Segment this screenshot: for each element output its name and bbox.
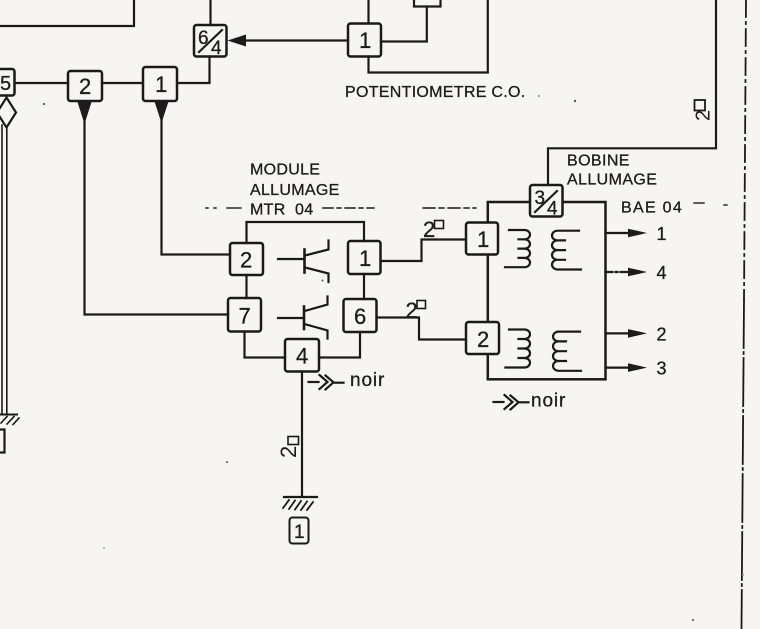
- wire into connector 6/4 from top: [209, 0, 211, 25]
- label MODULE ALLUMAGE MTR 04: [250, 162, 340, 219]
- svg-text:4: 4: [211, 38, 222, 59]
- svg-text:noir: noir: [531, 391, 566, 412]
- wire label 2-square (upper): [423, 217, 444, 242]
- noir marker (bobine): [494, 391, 567, 412]
- wire with arrowhead into 6/4 right side: [228, 35, 349, 47]
- wire box2 to box7: [245, 275, 247, 298]
- connector box 1 (top row): [143, 67, 177, 101]
- module box 4: [285, 339, 319, 372]
- wire box2 to box1: [102, 82, 143, 84]
- svg-text:1: 1: [657, 224, 667, 244]
- bobine connector 2: [466, 322, 499, 354]
- wire box7 to box4: [245, 332, 286, 358]
- component box partial at bottom-left edge: [0, 430, 5, 453]
- svg-text:BOBINE: BOBINE: [567, 153, 630, 170]
- output arrow 2: [606, 325, 667, 345]
- connector box 2 (top row): [68, 71, 102, 101]
- secondary coil L2: [552, 231, 581, 270]
- svg-text:2: 2: [240, 248, 252, 273]
- connector box 1 (potentiometre): [348, 24, 381, 57]
- wire box1 to box6: [363, 274, 365, 299]
- svg-text:7: 7: [239, 304, 251, 329]
- wire box6 to box4: [319, 332, 360, 358]
- output arrow 1: [606, 224, 667, 244]
- wire module box1 to bobine box1: [381, 240, 467, 262]
- svg-text:5: 5: [0, 73, 11, 95]
- wire label 2-square rotated (top right): [693, 100, 715, 121]
- output arrow 4 (dash-dot): [606, 263, 667, 283]
- svg-text:3: 3: [535, 188, 546, 209]
- module box 6: [344, 299, 377, 332]
- component box partial at top edge: [414, 0, 441, 7]
- output arrow 3: [606, 359, 667, 379]
- wire above potentiometre box 1: [367, 0, 369, 24]
- svg-text:4: 4: [547, 199, 558, 220]
- svg-text:ALLUMAGE: ALLUMAGE: [250, 182, 340, 199]
- scan speckles: [43, 95, 744, 621]
- ground below module box 4: [283, 497, 317, 510]
- terminal box 1 (bottom): [290, 518, 309, 544]
- wire double vertical from diamond to ground: [2, 125, 7, 413]
- module box 2: [230, 243, 263, 275]
- wire label 2-square rotated (box4 ground wire): [276, 437, 301, 459]
- wire from potentiometre box 1 bottom going right and up: [369, 0, 488, 73]
- svg-text:2: 2: [477, 327, 489, 352]
- svg-text:2: 2: [423, 217, 435, 242]
- svg-text:1: 1: [359, 246, 371, 271]
- svg-text:6: 6: [198, 28, 209, 49]
- wire from top right down to bobine 3/4: [548, 0, 716, 185]
- bobine connector 1: [466, 223, 498, 255]
- svg-text:MODULE: MODULE: [250, 162, 320, 179]
- svg-text:3: 3: [657, 359, 667, 379]
- wire label 2-square (lower): [406, 298, 426, 323]
- transistor Q2: [278, 297, 328, 339]
- wire with arrowhead from box1 down to module box2: [155, 102, 231, 255]
- svg-text:ALLUMAGE: ALLUMAGE: [567, 172, 657, 189]
- svg-text:2: 2: [657, 325, 667, 345]
- wire with arrowhead from box2 down to module box7: [78, 102, 229, 315]
- svg-text:4: 4: [657, 263, 667, 283]
- wire module box6 to bobine box2: [377, 318, 467, 340]
- svg-text:1: 1: [359, 28, 371, 53]
- svg-text:2: 2: [693, 110, 715, 121]
- noir marker (module): [309, 370, 386, 391]
- transistor Q1: [278, 241, 329, 283]
- svg-text:2: 2: [276, 446, 301, 458]
- bobine connector 3/4: [530, 185, 563, 220]
- secondary coil L4: [553, 332, 581, 371]
- wire box5 to box2: [15, 82, 69, 84]
- svg-text:1: 1: [155, 72, 167, 97]
- module box 1: [348, 241, 381, 274]
- svg-text:noir: noir: [350, 370, 385, 391]
- module box 7: [228, 298, 261, 332]
- wire box1 right up to 6/4: [177, 57, 210, 84]
- ground bottom-left: [0, 415, 19, 425]
- svg-text:4: 4: [296, 344, 308, 369]
- svg-text:1: 1: [477, 227, 489, 252]
- svg-text:6: 6: [354, 304, 366, 329]
- svg-text:2: 2: [406, 298, 418, 323]
- wire box4 down to ground: [301, 372, 303, 497]
- fold dash-dot line segments: [206, 203, 727, 208]
- connector box 6/4: [194, 25, 227, 59]
- svg-text:2: 2: [79, 74, 91, 99]
- svg-text:BAE 04: BAE 04: [621, 200, 683, 217]
- wire from potentiometre box 1 right to top box: [381, 7, 427, 42]
- svg-text:MTR 04: MTR 04: [250, 202, 313, 219]
- connector box 5 (partial at left edge): [0, 69, 15, 96]
- svg-text:1: 1: [294, 522, 305, 543]
- wire top-left corner: [0, 0, 134, 26]
- bobine allumage outline: [488, 202, 606, 379]
- primary coil L3: [505, 330, 530, 368]
- svg-text:POTENTIOMETRE C.O.: POTENTIOMETRE C.O.: [345, 84, 526, 101]
- diamond below box 5: [0, 98, 16, 128]
- wire module top bus box2-box1: [247, 222, 365, 243]
- label BOBINE ALLUMAGE BAE 04: [567, 153, 683, 217]
- page border dash-dot right: [742, 0, 747, 629]
- primary coil L1: [505, 230, 530, 267]
